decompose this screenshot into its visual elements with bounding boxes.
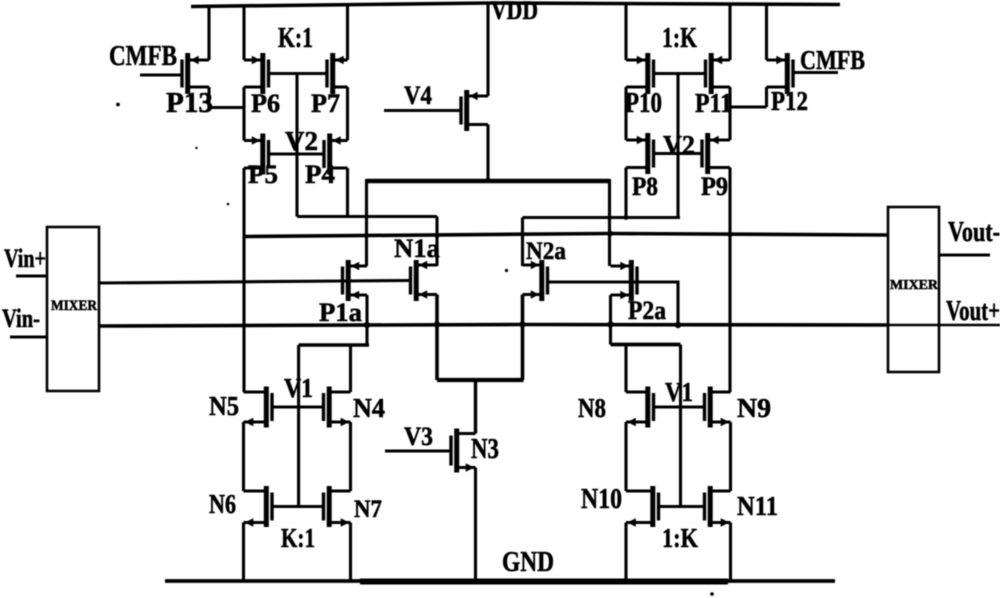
gate wire N10-N11 <box>659 505 705 508</box>
gate wire P10-P11 <box>654 72 706 75</box>
transistor N11 <box>705 486 731 527</box>
svg-text:N7: N7 <box>354 496 382 523</box>
wire P13 source drop <box>207 87 210 108</box>
wire P11 bottom to P9 top <box>728 87 731 140</box>
svg-text:P7: P7 <box>311 89 340 118</box>
wire V1 drop left to N-mirror gates <box>297 345 300 507</box>
lower bus through right mixer / Vout+ stub <box>888 324 1000 327</box>
gate wire N5-N4 <box>272 405 324 408</box>
gate line N2a P2a to lower bus <box>548 282 679 325</box>
svg-text:V2: V2 <box>663 130 695 160</box>
transistor N6 <box>244 486 273 527</box>
transistor N8 <box>626 387 654 428</box>
CMFB left gate lead <box>140 73 182 76</box>
wire V2 gates drop left <box>295 74 298 217</box>
wire N8 drain riser <box>624 345 627 393</box>
wire V4 source drop to crossover <box>486 125 489 182</box>
Vin+ stub <box>16 274 47 277</box>
svg-text:P5: P5 <box>248 160 278 189</box>
VDD rail <box>191 3 840 7</box>
wire P10 column riser to VDD <box>624 4 627 60</box>
svg-text:MIXER: MIXER <box>890 278 939 293</box>
svg-text:N4: N4 <box>353 393 385 423</box>
svg-text:VDD: VDD <box>491 0 538 25</box>
svg-text:N11: N11 <box>737 491 778 521</box>
wire P5 bottom long riser down to N5 <box>242 168 245 392</box>
V4 gate lead <box>384 109 460 112</box>
transistor N5 <box>244 387 273 428</box>
svg-text:N1a: N1a <box>394 234 440 263</box>
wire P6 column riser to VDD <box>242 5 245 60</box>
transistor V4 bias transistor <box>461 90 488 131</box>
transistor N9 <box>705 387 731 428</box>
svg-text:P9: P9 <box>701 172 728 201</box>
svg-text:N9: N9 <box>737 393 771 423</box>
wire P12 riser to VDD <box>765 4 768 60</box>
CMFB right gate lead <box>793 71 838 74</box>
transistor N4 <box>324 387 351 428</box>
wire N4 drain riser <box>349 345 352 392</box>
transistor P6 <box>244 53 269 94</box>
Vout- stub <box>939 253 990 256</box>
wire N3 source to GND <box>474 468 477 582</box>
svg-text:V3: V3 <box>404 422 433 451</box>
lower bus from left mixer to right mixer <box>99 325 888 327</box>
wire P12 source drop <box>765 87 768 107</box>
transistor N1a <box>411 260 438 301</box>
wire P13 drain riser to VDD <box>207 5 210 60</box>
svg-text:K:1: K:1 <box>278 23 313 54</box>
transistor P8 <box>626 133 654 174</box>
svg-text:N2a: N2a <box>526 238 566 265</box>
Vin- stub <box>10 335 47 338</box>
wire V1 drop right to N-mirror gates <box>679 345 682 507</box>
transistor P4 <box>324 134 348 175</box>
wire V4 riser to VDD <box>486 3 489 96</box>
V3 gate lead <box>385 449 451 452</box>
svg-text:V2: V2 <box>285 126 318 156</box>
speck <box>227 203 230 206</box>
wire P10 bottom to P8 top <box>624 87 627 140</box>
transistor P9 <box>702 133 730 174</box>
wire crossover left drop / P1a drain riser <box>365 179 368 266</box>
svg-text:1:K: 1:K <box>662 523 698 553</box>
transistor P10 <box>626 53 654 94</box>
svg-text:P12: P12 <box>771 86 808 116</box>
wire N1a source drop <box>435 295 439 381</box>
transistor P5 <box>244 134 269 175</box>
wire N7 source to GND <box>349 523 352 582</box>
svg-text:N5: N5 <box>209 391 239 421</box>
node wire left at y216 <box>297 215 437 218</box>
gate wire N6-N7 <box>272 505 324 508</box>
upper output bus <box>244 234 888 237</box>
crossover top wire <box>367 179 610 183</box>
wire P12 to P11 column <box>729 105 767 108</box>
wire N2a source drop <box>521 295 525 381</box>
wire P6 bottom to P5 top <box>242 87 245 141</box>
svg-text:Vout-: Vout- <box>948 217 1000 248</box>
node wire right at y217 <box>523 216 681 219</box>
junction P2a drain on upper bus <box>608 231 613 236</box>
junction N1a drain on upper bus <box>434 233 439 238</box>
speck <box>195 147 197 149</box>
svg-text:Vin-: Vin- <box>2 304 40 333</box>
transistor P1a <box>343 260 368 301</box>
wire crossover right drop / P2a drain riser <box>608 179 611 266</box>
junction N2a source on lower bus <box>519 321 525 327</box>
transistor P13 <box>182 53 209 94</box>
gate wire P5-P4 <box>269 152 325 155</box>
junction gate drop on lower bus <box>675 322 681 328</box>
svg-text:V1: V1 <box>284 373 313 403</box>
junction N1a source on lower bus <box>434 321 440 327</box>
input gate line from left mixer to P1a N1a gates <box>99 281 411 284</box>
wire P7 riser to VDD <box>346 4 349 60</box>
wire N5 source to N6 drain <box>242 422 245 491</box>
wire tail drop to N3 drain <box>474 380 477 434</box>
svg-text:P1a: P1a <box>319 298 362 327</box>
svg-text:P8: P8 <box>632 172 658 201</box>
junction crossover on node wire right <box>607 215 612 220</box>
V1 wire right <box>611 343 681 347</box>
svg-text:V4: V4 <box>404 81 432 110</box>
GND rail thick segment <box>360 579 728 585</box>
svg-text:P6: P6 <box>251 89 280 118</box>
svg-text:P11: P11 <box>695 88 732 118</box>
wire N6 source to GND <box>242 523 245 582</box>
transistor P7 <box>327 53 348 94</box>
transistor P11 <box>706 53 731 94</box>
wire N2a drain riser <box>521 218 524 267</box>
wire N11 source to GND <box>729 523 732 582</box>
junction P1a source on lower bus <box>364 322 370 328</box>
mixer box right <box>888 207 939 372</box>
gate wire P8-P9 <box>654 152 703 155</box>
svg-text:P4: P4 <box>305 160 335 189</box>
mixer box left <box>47 227 99 391</box>
junction P9 column on upper bus <box>727 232 732 237</box>
svg-text:N3: N3 <box>471 434 499 465</box>
svg-text:1:K: 1:K <box>662 23 697 54</box>
transistor N7 <box>324 486 351 527</box>
speck <box>710 592 714 596</box>
wire P11 riser to VDD <box>728 4 731 60</box>
wire V2 gates drop right <box>676 74 679 218</box>
transistor N2a <box>523 260 548 301</box>
tail wire <box>437 378 524 382</box>
svg-text:V1: V1 <box>665 377 693 407</box>
svg-text:GND: GND <box>502 547 554 578</box>
wire P4 bottom to node wire <box>346 168 349 217</box>
junction P2a source on lower bus <box>607 321 613 327</box>
V1 wire left <box>299 343 369 346</box>
wire P9 bottom long riser down to N9 <box>728 168 731 393</box>
wire N10 source to GND <box>624 523 627 582</box>
svg-text:MIXER: MIXER <box>51 298 97 314</box>
speck <box>116 103 120 107</box>
svg-text:Vin+: Vin+ <box>4 244 46 273</box>
GND rail <box>165 579 835 583</box>
gate wire P6-P7 <box>269 72 328 75</box>
wire P13 to P6 column <box>209 106 245 109</box>
svg-text:CMFB: CMFB <box>109 40 177 72</box>
wire N4 source to N7 drain <box>349 422 352 491</box>
gate wire N8-N9 <box>654 405 705 408</box>
svg-text:CMFB: CMFB <box>800 45 865 75</box>
wire P7 bottom to P4 top <box>346 87 349 141</box>
svg-text:N8: N8 <box>578 393 606 423</box>
transistor N3 <box>451 429 476 473</box>
wire N1a drain riser <box>435 217 438 267</box>
svg-text:P2a: P2a <box>628 296 666 325</box>
transistor N10 <box>626 486 659 527</box>
svg-text:P13: P13 <box>166 88 213 119</box>
wire N8 source to N10 drain <box>624 422 627 491</box>
wire P1a source drop to V1 wire <box>365 295 368 345</box>
svg-text:K:1: K:1 <box>281 523 315 553</box>
transistor P2a <box>611 260 638 301</box>
svg-text:N10: N10 <box>581 484 622 515</box>
speck <box>505 269 508 272</box>
wire P8 bottom to node wire <box>624 168 627 218</box>
svg-text:N6: N6 <box>209 489 236 519</box>
transistor P12 <box>767 53 794 94</box>
svg-text:P10: P10 <box>625 88 662 119</box>
svg-text:Vout+: Vout+ <box>946 296 1000 327</box>
wire N9 source to N11 drain <box>729 422 732 491</box>
junction P8 riser on node wire <box>624 215 629 220</box>
wire P2a source drop to V1 wire <box>609 295 612 345</box>
